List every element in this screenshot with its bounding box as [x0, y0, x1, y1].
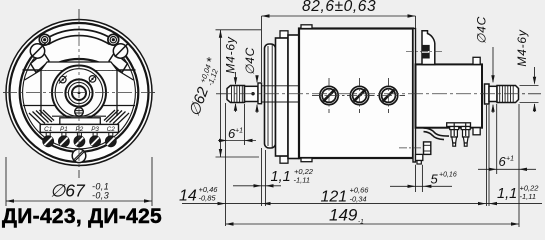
- svg-text:∅4C: ∅4C: [243, 47, 257, 75]
- dim 5: [431, 172, 457, 187]
- svg-text:5: 5: [431, 172, 439, 187]
- left thread lines: [232, 86, 243, 103]
- screw cross lines: [312, 95, 405, 97]
- terminal posts plate: [447, 123, 471, 127]
- svg-text:14: 14: [179, 188, 197, 205]
- hub circles: [65, 79, 92, 106]
- dia62 dimension: [216, 29, 262, 31]
- body top-left tab: [301, 25, 312, 29]
- terminal wires: [424, 128, 450, 136]
- svg-text:P1: P1: [60, 126, 68, 133]
- rear shaft smooth: [489, 86, 497, 101]
- housing circle thin: [23, 48, 136, 149]
- rear cap: [416, 64, 483, 127]
- mounting screw upper-left: [30, 44, 44, 58]
- axis overlay: [216, 93, 541, 95]
- terminal post 1: [450, 124, 459, 147]
- svg-text:М4-6у: М4-6у: [224, 36, 238, 74]
- dim 1,1 left: [271, 167, 314, 185]
- dim 82,6 extension lines: [261, 16, 263, 82]
- body bottom-left tab: [301, 158, 312, 162]
- svg-text:-1,11: -1,11: [520, 192, 537, 201]
- shaft center dot: [251, 92, 254, 95]
- side view axis centerline: [216, 93, 541, 95]
- small screw below hub: [75, 108, 84, 117]
- rear shaft threaded: [497, 86, 519, 103]
- front view centerline vertical: [78, 9, 80, 178]
- svg-text:C1: C1: [44, 126, 52, 133]
- svg-text:М4-6у: М4-6у: [515, 29, 529, 67]
- chord line upper: [23, 69, 136, 71]
- housing circle thick: [20, 33, 139, 152]
- dim 6 right: [499, 154, 515, 169]
- slot end hole right: [108, 34, 119, 45]
- svg-text:+0,16: +0,16: [439, 172, 457, 179]
- bearing housing circle: [52, 66, 106, 120]
- side vertical left: [40, 70, 42, 116]
- terminal label strip: [40, 124, 118, 132]
- shaft bore lines through flange: [262, 85, 300, 87]
- centerlines overlay: [78, 9, 80, 178]
- dia67 text: [50, 181, 109, 201]
- brush wedge hatch right: [104, 110, 129, 125]
- motor body: [299, 29, 413, 159]
- svg-text:-1,11: -1,11: [294, 176, 311, 185]
- svg-text:-0,3: -0,3: [92, 191, 109, 201]
- left shaft threaded portion: [227, 86, 245, 103]
- top arc slot band: [46, 30, 113, 45]
- dim 121 row: [182, 203, 542, 205]
- svg-text:82,6±0,63: 82,6±0,63: [302, 0, 376, 15]
- hub hole right: [89, 76, 96, 83]
- svg-text:149: 149: [329, 206, 358, 225]
- flange plate B tabs: [280, 31, 288, 38]
- front view centerline horizontal: [3, 92, 156, 94]
- pole wedge upper-right: [109, 53, 128, 73]
- rear cap bottom-right tab: [473, 128, 480, 135]
- body screw 1: [320, 86, 338, 104]
- chord line lower: [23, 105, 135, 107]
- dim 82,6 line: [262, 15, 416, 17]
- slot pin right: [110, 37, 116, 43]
- svg-text:1,1: 1,1: [271, 169, 291, 185]
- svg-text:∅4C: ∅4C: [475, 16, 489, 44]
- svg-text:P3: P3: [91, 126, 99, 133]
- svg-text:121: 121: [321, 189, 348, 206]
- motor flange outer circle: [6, 20, 152, 166]
- svg-text:∅67: ∅67: [50, 181, 86, 201]
- rear cap top-right tab: [473, 57, 480, 64]
- svg-text:+0,66: +0,66: [350, 186, 370, 195]
- stator upper arcs: [45, 59, 113, 70]
- dia67 extension lines: [5, 157, 7, 206]
- svg-text:C2: C2: [107, 126, 116, 133]
- motor flange inner rim circle: [10, 23, 149, 162]
- side vertical right: [116, 70, 118, 116]
- clamp screw tip: [417, 161, 421, 165]
- svg-text:ДИ-423, ДИ-425: ДИ-423, ДИ-425: [2, 205, 162, 228]
- rear boss: [485, 84, 490, 104]
- dim 6 left: [228, 126, 243, 141]
- terminal upper block: [60, 118, 101, 125]
- svg-text:1,1: 1,1: [497, 186, 517, 202]
- terminal post 2: [461, 124, 470, 147]
- slot end hole left: [39, 34, 50, 45]
- svg-text:P2: P2: [76, 126, 84, 133]
- brush wedge hatch left: [29, 110, 54, 125]
- bottom screw: [72, 149, 86, 163]
- flange plate B: [276, 38, 289, 156]
- body screw 3: [379, 86, 397, 104]
- terminal screws row: [43, 132, 116, 146]
- dia67 dimension line: [6, 200, 152, 202]
- hub hole left: [60, 76, 67, 83]
- pole wedge upper-left: [31, 53, 50, 73]
- svg-text:-0,85: -0,85: [199, 194, 217, 203]
- lug screw head: [422, 45, 429, 58]
- svg-text:+1: +1: [235, 128, 243, 135]
- svg-text:-0,34: -0,34: [350, 195, 367, 204]
- mounting screw upper-right: [113, 44, 127, 58]
- left shaft smooth portion: [245, 86, 259, 101]
- clamp foot tab: [416, 154, 423, 160]
- slot pin left: [42, 37, 48, 43]
- ground clamp block: [424, 142, 431, 155]
- flange plate C: [288, 35, 299, 159]
- svg-text:-1: -1: [358, 219, 364, 226]
- svg-text:+1: +1: [506, 156, 514, 163]
- top cap block: [41, 62, 117, 70]
- front flange disc: [265, 44, 276, 148]
- cap top lug: [422, 31, 435, 65]
- terminal base line: [52, 115, 106, 117]
- body rear face plate: [413, 29, 416, 163]
- dim 149: [226, 223, 520, 225]
- shaft collar: [258, 83, 262, 104]
- body screw 2: [350, 86, 368, 104]
